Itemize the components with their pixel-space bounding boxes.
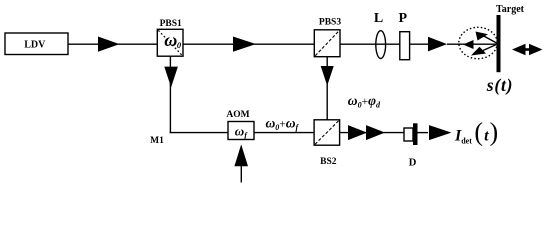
beam arrow PBS1 down [164, 67, 178, 88]
svg-text:s(t): s(t) [486, 75, 514, 95]
beam arrows BS2->D (double) [348, 125, 385, 140]
output arrow [429, 125, 451, 140]
beam arrow PBS3 down [321, 66, 334, 86]
wire M1 to AOM [170, 132, 228, 134]
BS2 beamsplitter [314, 120, 340, 145]
svg-text:PBS3: PBS3 [319, 17, 341, 27]
PBS3 beamsplitter [314, 30, 340, 57]
svg-text:BS2: BS2 [320, 157, 337, 167]
svg-text:ω0+ωf: ω0+ωf [266, 116, 300, 132]
wire PBS3 down to BS2 [326, 57, 328, 120]
svg-text:AOM: AOM [226, 110, 249, 120]
beam arrow LDV->PBS1 [98, 37, 120, 52]
wire D to output [418, 132, 429, 134]
RF drive arrow into AOM [234, 144, 248, 182]
wire LDV to PBS1 [68, 43, 158, 45]
detector D window [404, 128, 413, 141]
wire BS2 to D [340, 132, 404, 134]
detector D body [413, 123, 418, 145]
polarizer P [400, 32, 410, 60]
wire AOM to BS2 [254, 132, 314, 134]
reflected beam arrow on axis [463, 40, 474, 49]
lens L [376, 31, 386, 59]
vibration arrow s(t) [512, 44, 543, 56]
wire PBS3 to lens L [340, 43, 400, 45]
scattered ray lower [471, 44, 498, 56]
PBS1 beamsplitter [157, 29, 183, 56]
target bar [497, 15, 501, 72]
svg-text:M1: M1 [150, 136, 164, 146]
scattered ray upper [476, 32, 498, 44]
wire PBS1 down to M1 [169, 56, 171, 133]
svg-text:D: D [409, 158, 417, 169]
LDV source box [5, 33, 68, 55]
scatter ellipse (dotted) [459, 27, 497, 58]
svg-text:L: L [374, 11, 383, 26]
beam arrow to target [428, 37, 447, 52]
wire PBS1 to PBS3 [184, 43, 315, 45]
beam arrow PBS1->PBS3 [233, 37, 256, 52]
svg-text:Target: Target [496, 4, 525, 15]
svg-text:P: P [399, 11, 408, 26]
svg-text:PBS1: PBS1 [160, 19, 182, 29]
svg-text:LDV: LDV [24, 39, 46, 50]
wire P to target [410, 43, 428, 45]
wire arrow to target bar [447, 43, 497, 45]
AOM box [228, 122, 254, 140]
